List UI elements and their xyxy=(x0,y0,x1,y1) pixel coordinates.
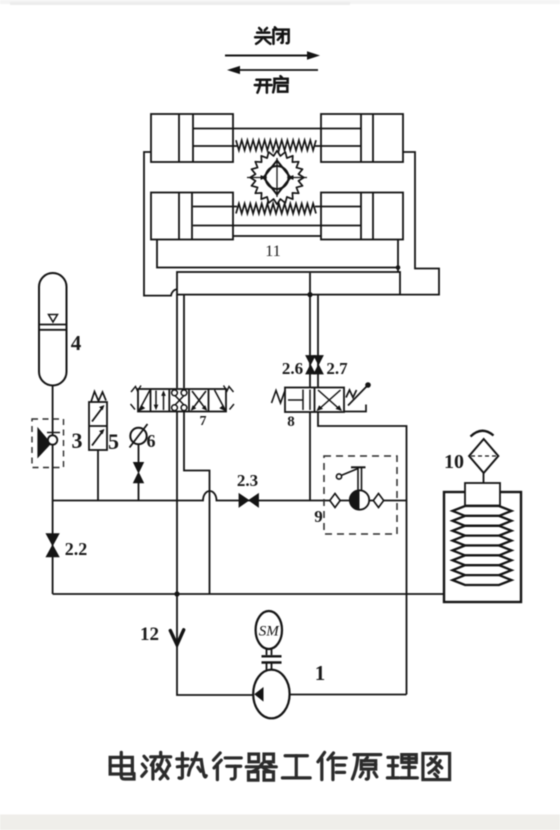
plate lower manifold xyxy=(177,272,400,295)
svg-text:6: 6 xyxy=(147,431,156,451)
wire outer frame right xyxy=(400,152,439,295)
valve 7 left solenoid box xyxy=(131,386,151,412)
throttle valve 2.6 xyxy=(306,356,315,375)
text open 开启 xyxy=(255,76,288,93)
wire gauge down xyxy=(138,444,140,463)
svg-text:1: 1 xyxy=(315,661,326,685)
pressure gauge 6 xyxy=(130,424,148,448)
hand pump 9 dashed box xyxy=(324,456,397,534)
throttle valve 2.7 xyxy=(314,356,323,375)
valve 7 right solenoid box xyxy=(215,386,235,412)
pinion gear teeth xyxy=(250,151,304,205)
component number labels xyxy=(65,243,464,685)
valve 8 spring xyxy=(272,391,286,404)
wire valve7 portA down xyxy=(176,412,178,594)
text close 关闭 xyxy=(255,27,289,44)
svg-text:9: 9 xyxy=(314,507,323,526)
wire pair down to valve 8 xyxy=(310,295,318,388)
solenoid valve 7 body xyxy=(138,389,226,412)
wire valve7 portB jog xyxy=(184,412,210,594)
valve 2.3 xyxy=(239,494,259,508)
valve 7 centre cell ports xyxy=(172,390,187,411)
cylinder top-right xyxy=(321,114,403,162)
wire valve8 portB to right rail xyxy=(318,412,407,695)
svg-text:5: 5 xyxy=(108,429,119,454)
title 电液执行器工作原理图 xyxy=(110,752,449,780)
hand pump check diamond right xyxy=(373,494,383,508)
svg-text:3: 3 xyxy=(72,428,83,453)
wire pair down to valve 7 xyxy=(177,295,184,388)
svg-text:8: 8 xyxy=(287,414,295,430)
pinion hub diamond xyxy=(264,161,291,195)
check valve 3 xyxy=(38,429,60,458)
cylinder top-left xyxy=(151,114,233,162)
motor SM xyxy=(256,611,282,649)
valve 7 cell cross xyxy=(191,391,208,411)
tank neck xyxy=(465,483,500,506)
top rack bar xyxy=(193,129,361,147)
svg-text:10: 10 xyxy=(444,451,464,473)
valve 8 lever xyxy=(344,382,371,411)
pump 1 xyxy=(253,670,289,719)
wire shutoff down xyxy=(138,483,140,501)
svg-text:2.7: 2.7 xyxy=(326,359,348,378)
node suction junction xyxy=(174,591,179,596)
solenoid valve 8 body xyxy=(285,388,344,413)
breather stem xyxy=(483,473,485,483)
shutoff valve under gauge xyxy=(134,463,144,483)
svg-text:11: 11 xyxy=(265,243,280,260)
bottom rack bar xyxy=(193,207,361,226)
wire port stub inside lower plate xyxy=(309,273,311,295)
valve 8 left cell xyxy=(288,390,310,411)
valve 8 right cell cross xyxy=(317,390,343,411)
air filter cap arc xyxy=(471,431,494,437)
arrow open (left) xyxy=(227,66,318,74)
relief valve 5 body xyxy=(89,402,107,450)
node tap to valve8 xyxy=(307,292,312,297)
top rack teeth xyxy=(236,140,316,150)
hand pump body xyxy=(350,490,369,509)
wire pressure line with hop xyxy=(53,491,407,501)
hand pump check diamond left xyxy=(330,494,340,508)
wire outer frame left (to valve 8 tap) xyxy=(144,152,398,296)
pinion centerline arrows xyxy=(247,158,307,197)
valve 7 cell dividers xyxy=(151,389,209,412)
strainer 12 arrow xyxy=(170,630,184,645)
wire plate corner stub xyxy=(397,268,399,273)
bottom rack teeth xyxy=(236,204,316,214)
pinion hub circle xyxy=(266,166,289,189)
valve 2.2 shutoff xyxy=(46,534,59,557)
svg-text:7: 7 xyxy=(200,414,207,429)
svg-text:12: 12 xyxy=(140,624,159,645)
wire suction to pump xyxy=(177,594,253,695)
svg-text:2.2: 2.2 xyxy=(65,539,88,559)
air filter 10 diamond xyxy=(469,439,498,473)
accumulator 4 xyxy=(39,273,67,386)
svg-text:4: 4 xyxy=(71,331,82,355)
relief valve 5 spring xyxy=(91,392,106,403)
svg-text:SM: SM xyxy=(259,624,281,640)
tank bellows xyxy=(453,506,512,585)
valve 8 divider xyxy=(314,388,316,413)
oil tank body xyxy=(444,492,521,602)
wire valve 5 down xyxy=(97,450,99,501)
coupling xyxy=(262,649,282,670)
check valve 3 dashed box xyxy=(32,419,64,468)
wire pump outlet xyxy=(290,694,407,696)
plate 11 (manifold) xyxy=(157,236,398,268)
valve 7 cell P arrows xyxy=(154,390,166,410)
cylinder bottom-right xyxy=(321,193,403,240)
svg-text:2.6: 2.6 xyxy=(282,359,303,378)
arrow close (right) xyxy=(225,51,320,60)
cylinder bottom-left xyxy=(151,193,233,240)
wire valve8 portA down xyxy=(309,412,311,501)
wire accumulator down xyxy=(52,386,54,595)
wire suction line xyxy=(53,593,444,595)
hand pump lever xyxy=(336,467,365,490)
node plate corner xyxy=(396,265,401,270)
svg-text:2.3: 2.3 xyxy=(237,471,258,490)
